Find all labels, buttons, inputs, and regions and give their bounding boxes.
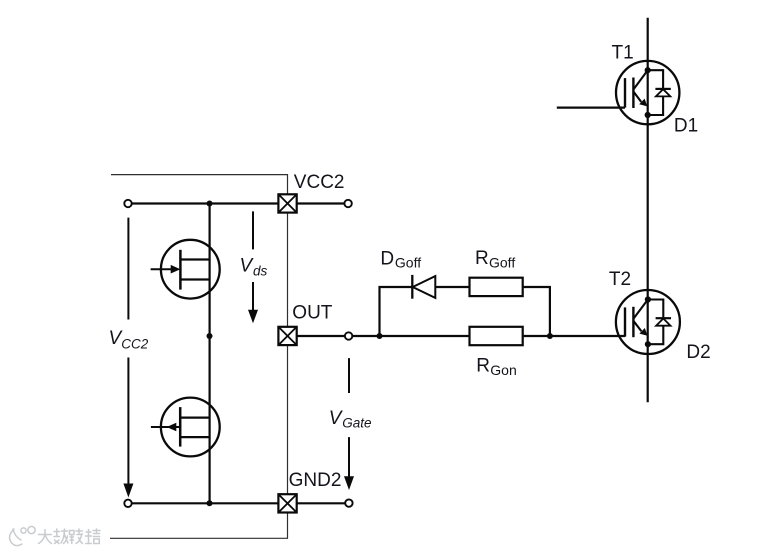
svg-text:Gate: Gate <box>342 415 371 430</box>
svg-text:ds: ds <box>253 263 268 278</box>
svg-text:T2: T2 <box>609 269 631 290</box>
svg-text:R: R <box>476 355 490 376</box>
svg-text:OUT: OUT <box>292 302 333 323</box>
svg-text:GND2: GND2 <box>289 470 342 491</box>
svg-text:D2: D2 <box>686 342 710 363</box>
svg-text:R: R <box>475 248 489 269</box>
svg-text:VCC2: VCC2 <box>294 172 345 193</box>
svg-text:D: D <box>380 249 394 270</box>
svg-text:Gon: Gon <box>490 362 516 378</box>
svg-text:Goff: Goff <box>489 254 515 270</box>
svg-text:T1: T1 <box>612 42 634 63</box>
svg-text:Goff: Goff <box>395 254 421 270</box>
svg-text:CC2: CC2 <box>121 337 148 352</box>
svg-text:D1: D1 <box>674 116 698 137</box>
